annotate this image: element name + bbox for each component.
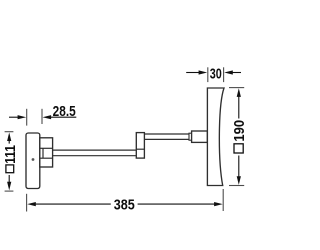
dim 190 square symbol <box>234 144 243 153</box>
dim 111 down arrow <box>8 175 10 183</box>
dim 28.5 extension line left <box>26 109 28 126</box>
hinge barrel inner edge <box>42 148 44 158</box>
dim 30 extension line right <box>223 67 225 82</box>
mirror body <box>207 88 224 186</box>
svg-text:385: 385 <box>114 195 135 212</box>
dim 28.5 right arrow and leader <box>43 115 52 119</box>
hinge divider lower <box>40 157 53 159</box>
screw dot on wall plate <box>32 158 35 161</box>
elbow divider <box>136 148 144 150</box>
dim 28.5 left arrow <box>9 116 19 118</box>
svg-text:190: 190 <box>230 120 247 142</box>
hinge divider upper <box>40 147 53 149</box>
svg-text:111: 111 <box>2 145 19 164</box>
dim 190 bottom tick <box>229 185 244 187</box>
elbow joint <box>136 133 144 159</box>
mirror mount block <box>192 131 208 142</box>
dim 385 right arrow <box>138 203 216 205</box>
dim 28.5 extension line right <box>41 109 43 124</box>
svg-text:28.5: 28.5 <box>53 103 76 120</box>
dim 385 extension line left <box>26 194 28 212</box>
hinge body <box>40 138 53 167</box>
wall plate <box>26 133 40 189</box>
dim 111 bottom tick <box>5 190 14 192</box>
dim 190 top tick <box>229 87 244 89</box>
dim 190 up arrow <box>237 88 241 97</box>
svg-text:30: 30 <box>210 65 222 82</box>
dim 111 up arrow <box>7 132 11 141</box>
mirror mount collar <box>189 133 192 140</box>
dim 385 extension line right <box>222 189 224 211</box>
dim 190 down arrow <box>238 156 240 178</box>
dim 111 top tick <box>5 131 14 133</box>
dim 111 square symbol <box>6 165 14 173</box>
upper arm tube <box>144 134 189 139</box>
lower arm tube <box>53 150 137 156</box>
dim 30 right arrow <box>224 70 233 74</box>
dim 30 left arrow <box>186 72 200 74</box>
dim 30 extension line left <box>207 67 209 82</box>
dim 385 left arrow <box>27 202 36 206</box>
